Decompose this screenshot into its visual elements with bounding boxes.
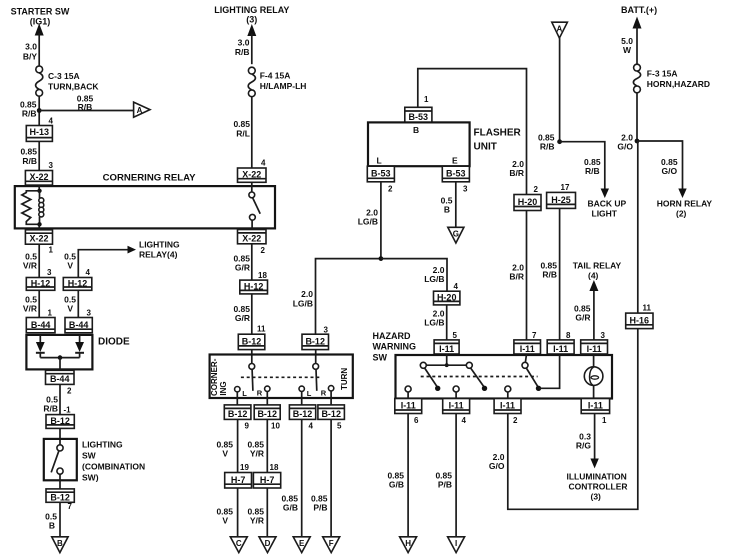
- svg-text:3: 3: [463, 185, 468, 194]
- svg-text:R/B: R/B: [22, 156, 37, 166]
- node diode output junction: [58, 355, 63, 360]
- diode D2: [75, 335, 84, 358]
- connector I-11 pin7: [514, 340, 541, 354]
- svg-text:LG/B: LG/B: [358, 217, 378, 227]
- svg-text:6: 6: [414, 416, 419, 425]
- svg-text:B: B: [444, 205, 450, 215]
- value 0.85 G/R tail: [574, 304, 591, 323]
- svg-text:R/B: R/B: [542, 270, 557, 280]
- svg-text:H-12: H-12: [244, 281, 264, 291]
- svg-text:R/B: R/B: [585, 166, 600, 176]
- svg-text:B-53: B-53: [446, 169, 466, 179]
- connector B-12 pin9: [224, 405, 251, 420]
- connector I-11 pin8: [547, 340, 574, 354]
- value 0.85 R/B on wire to A: [77, 94, 94, 113]
- value 0.85 Y/R col2 lower: [247, 507, 264, 526]
- svg-text:B-12: B-12: [257, 409, 277, 419]
- connector H-16: [626, 313, 653, 329]
- svg-text:B/R: B/R: [509, 272, 524, 282]
- svg-text:P/B: P/B: [438, 480, 452, 490]
- svg-text:10: 10: [271, 422, 280, 431]
- wire flasher E to ground G: [455, 182, 457, 228]
- connector B-53 pin1: [405, 107, 432, 122]
- turn SW throw R2: [321, 386, 334, 398]
- svg-text:F-3 15A: F-3 15A: [647, 69, 678, 79]
- svg-text:H-12: H-12: [31, 279, 51, 289]
- connector H-7 first: [225, 473, 252, 489]
- wire lighting SW to B-12: [59, 474, 61, 489]
- turn SW throw L2: [299, 386, 312, 398]
- value 2.0 B/R upper: [509, 159, 524, 178]
- wire H-16 down and to hazard pin2: [508, 329, 638, 510]
- svg-text:11: 11: [643, 304, 652, 313]
- wire X-22 to H-12: [251, 244, 253, 280]
- svg-text:1: 1: [49, 246, 54, 255]
- svg-text:4: 4: [49, 117, 54, 126]
- connector H-12 mid: [240, 280, 268, 294]
- svg-text:I: I: [455, 539, 457, 548]
- wire pin4 to ground I: [455, 414, 457, 537]
- connector B-44 output: [46, 370, 75, 384]
- connector B-12 pin3: [302, 334, 329, 349]
- wire contact3 to pin8: [539, 355, 560, 388]
- svg-text:Y/R: Y/R: [250, 449, 264, 459]
- svg-text:G/B: G/B: [283, 503, 298, 513]
- node LIGHTING RELAY (3) label: [214, 5, 289, 25]
- wire X-22 to H-12: [38, 244, 40, 277]
- svg-text:I-11: I-11: [520, 344, 535, 354]
- svg-text:H-13: H-13: [30, 127, 50, 137]
- svg-text:B-12: B-12: [321, 409, 341, 419]
- svg-text:17: 17: [561, 183, 570, 192]
- svg-text:R: R: [257, 389, 263, 398]
- svg-text:B-12: B-12: [50, 416, 70, 426]
- node STARTER SW (IG1) label: [11, 7, 70, 27]
- relay U1 CORNERING RELAY box: [15, 186, 275, 228]
- svg-text:CORNERING RELAY: CORNERING RELAY: [103, 173, 197, 184]
- wire coil to X-22 pin 1: [38, 224, 40, 230]
- wire B-12 to turn signal SW: [251, 350, 253, 364]
- wire pin7 into hazard SW: [525, 354, 526, 362]
- svg-text:G/O: G/O: [662, 166, 678, 176]
- svg-text:SW: SW: [373, 353, 388, 363]
- node HORN RELAY (2) label: [657, 199, 713, 219]
- svg-text:H: H: [405, 539, 411, 548]
- hazard pole contact 3: [522, 362, 541, 391]
- svg-text:11: 11: [257, 325, 266, 334]
- svg-text:LG/B: LG/B: [424, 274, 444, 284]
- connector H-25: [547, 192, 576, 208]
- svg-text:B-44: B-44: [69, 320, 89, 330]
- svg-text:I-11: I-11: [587, 344, 602, 354]
- value 5.0 W: [621, 36, 633, 55]
- node junction to A: [37, 108, 42, 113]
- fuse F-3 15A HORN,HAZARD: [633, 64, 710, 93]
- ground I: [448, 537, 465, 553]
- arrow to starter SW: [35, 24, 44, 36]
- connector B-12 pin10: [254, 405, 280, 420]
- svg-text:(COMBINATION: (COMBINATION: [82, 462, 145, 472]
- connector H-20 B/R: [514, 195, 541, 211]
- svg-text:UNIT: UNIT: [474, 142, 497, 153]
- value 2.0 LG/B: [293, 289, 314, 309]
- svg-text:H-7: H-7: [231, 475, 246, 485]
- value 2.0 LG/B lower: [424, 309, 445, 328]
- svg-text:A: A: [557, 25, 563, 34]
- svg-text:G/R: G/R: [235, 313, 250, 323]
- svg-text:3: 3: [324, 326, 329, 335]
- value 2.0 LG/B: [358, 208, 379, 227]
- svg-text:TAIL RELAY: TAIL RELAY: [573, 261, 622, 271]
- wire H-20 to I-11 pin7: [526, 211, 528, 340]
- svg-text:LG/B: LG/B: [293, 299, 313, 309]
- value 2.0 G/O: [617, 133, 633, 152]
- svg-text:B: B: [49, 521, 55, 531]
- svg-text:E: E: [299, 539, 305, 548]
- svg-text:3: 3: [47, 268, 52, 277]
- connector X-22 bottom left: [25, 230, 52, 244]
- svg-text:(2): (2): [676, 209, 687, 219]
- connector B-12 pin11: [238, 334, 264, 349]
- ground F: [323, 537, 340, 553]
- arrow to horn relay: [678, 189, 686, 199]
- svg-text:V/R: V/R: [23, 261, 37, 271]
- value 0.85 G/B col3: [281, 494, 298, 513]
- resistor in relay: [22, 191, 40, 225]
- svg-text:B-53: B-53: [371, 169, 391, 179]
- svg-text:V: V: [67, 261, 73, 271]
- ground B: [52, 537, 68, 553]
- svg-text:BATT.(+): BATT.(+): [621, 5, 657, 15]
- connector I-11 pin4: [443, 399, 470, 414]
- value 0.5 B: [441, 196, 453, 215]
- svg-text:LIGHT: LIGHT: [592, 209, 618, 219]
- svg-text:H-16: H-16: [630, 315, 650, 325]
- value 0.5 V: [64, 252, 76, 271]
- node G/O junction: [635, 139, 640, 144]
- switch contacts lighting SW: [51, 445, 63, 474]
- node LIGHTING RELAY(4) label: [139, 240, 180, 260]
- value 0.85 R/B: [20, 147, 37, 167]
- ground H: [400, 537, 417, 553]
- svg-text:R/L: R/L: [236, 129, 250, 139]
- wire throw2 to B-12 pin10: [266, 398, 268, 405]
- wire H-20 to I-11 pin5: [446, 305, 448, 340]
- hazard throw contact 2: [505, 386, 511, 399]
- switch SW1 LIGHTING SW box: [44, 439, 77, 480]
- svg-text:SW): SW): [82, 473, 99, 483]
- svg-text:B/Y: B/Y: [23, 52, 38, 62]
- wire diode join: [40, 357, 79, 359]
- svg-text:B-44: B-44: [31, 320, 51, 330]
- flasher unit U2 box: [368, 122, 470, 166]
- connector X-22 top left: [25, 171, 52, 186]
- switch SW3 HAZARD WARNING box: [396, 355, 613, 399]
- value 0.85 R/L: [233, 119, 250, 139]
- svg-text:G/O: G/O: [489, 461, 505, 471]
- svg-text:I-11: I-11: [588, 400, 603, 410]
- svg-text:L: L: [377, 156, 382, 166]
- connector X-22 bottom mid: [238, 230, 267, 244]
- wire relay switch to X-22: [251, 220, 253, 229]
- value 0.5 B: [45, 512, 57, 531]
- wire pin9 to H-7: [237, 419, 239, 472]
- node A off-page connector: [134, 102, 150, 117]
- connector B-12 below lighting SW: [46, 489, 74, 503]
- hazard pole contact 2: [466, 362, 487, 391]
- svg-text:TURN: TURN: [340, 368, 349, 390]
- svg-text:4: 4: [261, 159, 266, 168]
- svg-text:2: 2: [534, 185, 539, 194]
- turn SW throw L1: [235, 387, 248, 399]
- ground G: [448, 227, 464, 243]
- value 0.85 G/O: [661, 157, 678, 176]
- svg-text:CONTROLLER: CONTROLLER: [569, 482, 628, 492]
- arrow to lighting relay(4): [128, 246, 137, 254]
- node A down connector: [552, 22, 568, 38]
- connector B-53 L: [367, 166, 394, 182]
- wire diode out to B-44: [59, 358, 61, 371]
- svg-text:C-3 15A: C-3 15A: [48, 71, 80, 81]
- value 2.0 B/R lower: [509, 263, 524, 282]
- svg-text:I-11: I-11: [401, 400, 416, 410]
- wire H-25 to I-11 pin8: [559, 208, 561, 340]
- svg-text:E: E: [452, 156, 458, 166]
- wire B-12 pin3 to turn signal SW: [315, 350, 317, 364]
- value 0.5 V: [64, 295, 76, 314]
- value 3.0 R/B: [235, 38, 250, 58]
- diode pack box: [26, 335, 92, 370]
- value 0.85 R/B at A junction: [538, 133, 555, 152]
- svg-text:ILLUMINATION: ILLUMINATION: [567, 472, 627, 482]
- node coil top: [37, 189, 41, 193]
- svg-text:RELAY(4): RELAY(4): [139, 250, 178, 260]
- wire fuse to X-22: [251, 97, 253, 168]
- wire pin6 to ground H: [407, 414, 409, 537]
- svg-text:3.0: 3.0: [238, 38, 250, 48]
- arrow to illumination controller: [590, 459, 598, 469]
- svg-text:P/B: P/B: [313, 503, 327, 513]
- svg-text:W: W: [623, 45, 632, 55]
- wire throw3 to B-12 pin4: [301, 398, 303, 405]
- value 0.85 G/B hazard: [387, 471, 404, 490]
- svg-text:G/O: G/O: [617, 142, 633, 152]
- svg-text:C: C: [236, 539, 242, 548]
- wire hazard link: [426, 364, 466, 366]
- wire junction to horn relay: [637, 141, 683, 190]
- connector I-11 pin2: [494, 399, 521, 414]
- svg-text:B-12: B-12: [228, 409, 248, 419]
- svg-text:19: 19: [240, 463, 249, 472]
- value 0.85 R/B branch: [584, 157, 601, 176]
- connector I-11 pin3: [581, 340, 608, 354]
- node BACK UP LIGHT label: [588, 199, 627, 219]
- svg-text:B-12: B-12: [50, 493, 70, 503]
- wire junction to back up light: [560, 142, 605, 190]
- svg-text:H-25: H-25: [551, 195, 571, 205]
- wire fuse to G/O junction: [636, 93, 638, 141]
- wire B-12 to lighting SW: [59, 428, 61, 444]
- svg-text:B-44: B-44: [50, 374, 70, 384]
- wire battery feed: [636, 26, 638, 64]
- svg-text:X-22: X-22: [29, 172, 48, 182]
- connector B-53 E: [442, 166, 469, 182]
- svg-text:2.0: 2.0: [301, 289, 313, 299]
- wire starter feed: [38, 33, 40, 66]
- fuse F-4 15A H/LAMP-LH: [248, 67, 306, 97]
- svg-text:Y/R: Y/R: [250, 516, 264, 526]
- svg-text:X-22: X-22: [29, 234, 48, 244]
- value 0.85 G/R: [233, 304, 250, 323]
- turn SW throw R1: [257, 386, 270, 398]
- svg-text:A: A: [137, 106, 143, 115]
- wire X-22 into relay switch: [251, 182, 253, 192]
- svg-text:LIGHTING: LIGHTING: [139, 240, 180, 250]
- node R/B junction: [557, 139, 562, 144]
- svg-text:I-11: I-11: [439, 344, 454, 354]
- svg-text:F: F: [329, 539, 334, 548]
- svg-text:WARNING: WARNING: [373, 342, 417, 352]
- svg-text:V: V: [222, 516, 228, 526]
- svg-text:3: 3: [87, 309, 92, 318]
- svg-text:F-4 15A: F-4 15A: [260, 71, 291, 81]
- svg-text:9: 9: [245, 422, 250, 431]
- svg-text:H-20: H-20: [518, 197, 538, 207]
- wire B-12 to ground B: [59, 502, 61, 537]
- wire fuse to junction: [38, 96, 40, 125]
- dashed gang line turn SW: [241, 376, 320, 378]
- arrow to back up light: [601, 189, 609, 199]
- svg-text:I-11: I-11: [500, 400, 515, 410]
- svg-text:G/B: G/B: [389, 480, 404, 490]
- svg-text:2: 2: [261, 246, 266, 255]
- ground D: [259, 537, 276, 553]
- arrow to tail relay: [589, 280, 598, 291]
- svg-text:4: 4: [309, 422, 314, 431]
- svg-text:B/R: B/R: [509, 168, 524, 178]
- svg-text:HORN RELAY: HORN RELAY: [657, 199, 713, 209]
- wire lighting relay branch: [78, 250, 128, 278]
- wire H-13 to X-22: [38, 141, 40, 170]
- svg-text:B: B: [57, 539, 63, 548]
- lamp DS1 hazard indicator: [584, 355, 603, 399]
- connector B-12 above lighting SW: [46, 415, 74, 429]
- svg-text:2: 2: [67, 387, 72, 396]
- hazard throw contact 4: [453, 386, 459, 399]
- svg-text:B: B: [413, 125, 419, 135]
- svg-text:R/B: R/B: [43, 404, 58, 414]
- svg-text:R/G: R/G: [576, 441, 592, 451]
- wire flasher L to junction: [380, 182, 382, 259]
- turn SW pole contact right: [313, 364, 319, 391]
- svg-text:L: L: [242, 389, 247, 398]
- wire H-12 to B-12 pin11: [251, 294, 253, 334]
- svg-text:5: 5: [337, 422, 342, 431]
- connector B-12 pin5: [318, 405, 345, 420]
- svg-text:2: 2: [513, 416, 518, 425]
- wire pin4 to ground E: [301, 419, 303, 536]
- svg-text:R/B: R/B: [78, 102, 93, 112]
- dashed gang line hazard SW: [421, 376, 538, 378]
- value 0.85 V col1 lower: [216, 507, 233, 526]
- hazard pole contact 1: [420, 362, 440, 391]
- node hazard link junction: [445, 363, 449, 367]
- svg-text:3: 3: [601, 331, 606, 340]
- svg-text:TURN,BACK: TURN,BACK: [48, 82, 99, 92]
- wire pin1 to illumination controller: [594, 414, 596, 461]
- value 2.0 LG/B right branch: [424, 265, 445, 284]
- svg-text:R/B: R/B: [235, 47, 250, 57]
- value 3.0 B/Y: [23, 42, 38, 62]
- value 0.85 Y/R col2: [247, 440, 264, 459]
- connector H-13: [26, 126, 52, 142]
- wire throw1 to B-12 pin9: [236, 398, 238, 405]
- wire H-7 to ground D: [266, 488, 268, 537]
- turn SW pole contact left: [249, 364, 255, 391]
- node coil bottom: [37, 222, 41, 226]
- svg-text:DIODE: DIODE: [98, 337, 130, 348]
- connector B-44 left: [26, 318, 55, 333]
- svg-text:1: 1: [602, 416, 607, 425]
- node TAIL RELAY (4) label: [573, 261, 622, 281]
- svg-text:SW: SW: [82, 451, 97, 461]
- svg-text:B-12: B-12: [293, 409, 313, 419]
- svg-text:(3): (3): [246, 15, 257, 25]
- svg-text:7: 7: [68, 502, 73, 511]
- value 0.85 R/B left of junction: [20, 100, 37, 119]
- value 0.85 V col1: [216, 440, 233, 459]
- connector I-11 pin1: [581, 399, 609, 414]
- svg-text:LG/B: LG/B: [424, 318, 444, 328]
- svg-text:(4): (4): [588, 271, 599, 281]
- wire LG/B junction to B-12 pin3: [316, 259, 381, 335]
- svg-text:B-12: B-12: [305, 337, 325, 347]
- svg-text:FLASHER: FLASHER: [474, 128, 522, 139]
- svg-text:4: 4: [454, 282, 459, 291]
- diode D1: [36, 335, 45, 358]
- svg-text:HORN,HAZARD: HORN,HAZARD: [647, 79, 710, 89]
- value 0.85 P/B col4: [311, 494, 328, 513]
- svg-text:STARTER SW: STARTER SW: [11, 7, 70, 17]
- wire I-11 pin3 to tail relay: [593, 287, 595, 340]
- svg-text:LIGHTING: LIGHTING: [82, 440, 123, 450]
- switch SW2 TURN SIGNAL box: [210, 355, 353, 399]
- connector H-12 left: [26, 278, 55, 291]
- svg-text:H-7: H-7: [260, 475, 275, 485]
- wire lighting relay feed: [251, 34, 253, 65]
- wire B-44 to B-12: [59, 384, 61, 414]
- svg-text:2: 2: [388, 185, 393, 194]
- value 0.5 R/B: [43, 395, 58, 414]
- inductor coil L1 in relay: [39, 191, 44, 225]
- wire battery to H-16: [637, 141, 639, 313]
- connector X-22 top mid: [238, 168, 267, 182]
- label CORNER-ING vertical: [210, 358, 228, 396]
- connector H-20 hazard: [434, 291, 460, 305]
- connector I-11 pin5: [434, 340, 459, 354]
- wire LG/B junction to H-20: [381, 259, 447, 292]
- label FLASHER UNIT: [474, 128, 522, 153]
- connector B-12 pin4: [289, 405, 315, 420]
- svg-text:-1: -1: [64, 406, 72, 415]
- value 0.85 P/B hazard: [435, 471, 452, 490]
- svg-text:V: V: [222, 449, 228, 459]
- value 0.5 V/R: [23, 295, 37, 314]
- svg-text:7: 7: [532, 331, 537, 340]
- wire pin10 to H-7: [266, 419, 268, 472]
- svg-text:I-11: I-11: [553, 344, 568, 354]
- wire pin5 to ground F: [330, 419, 332, 536]
